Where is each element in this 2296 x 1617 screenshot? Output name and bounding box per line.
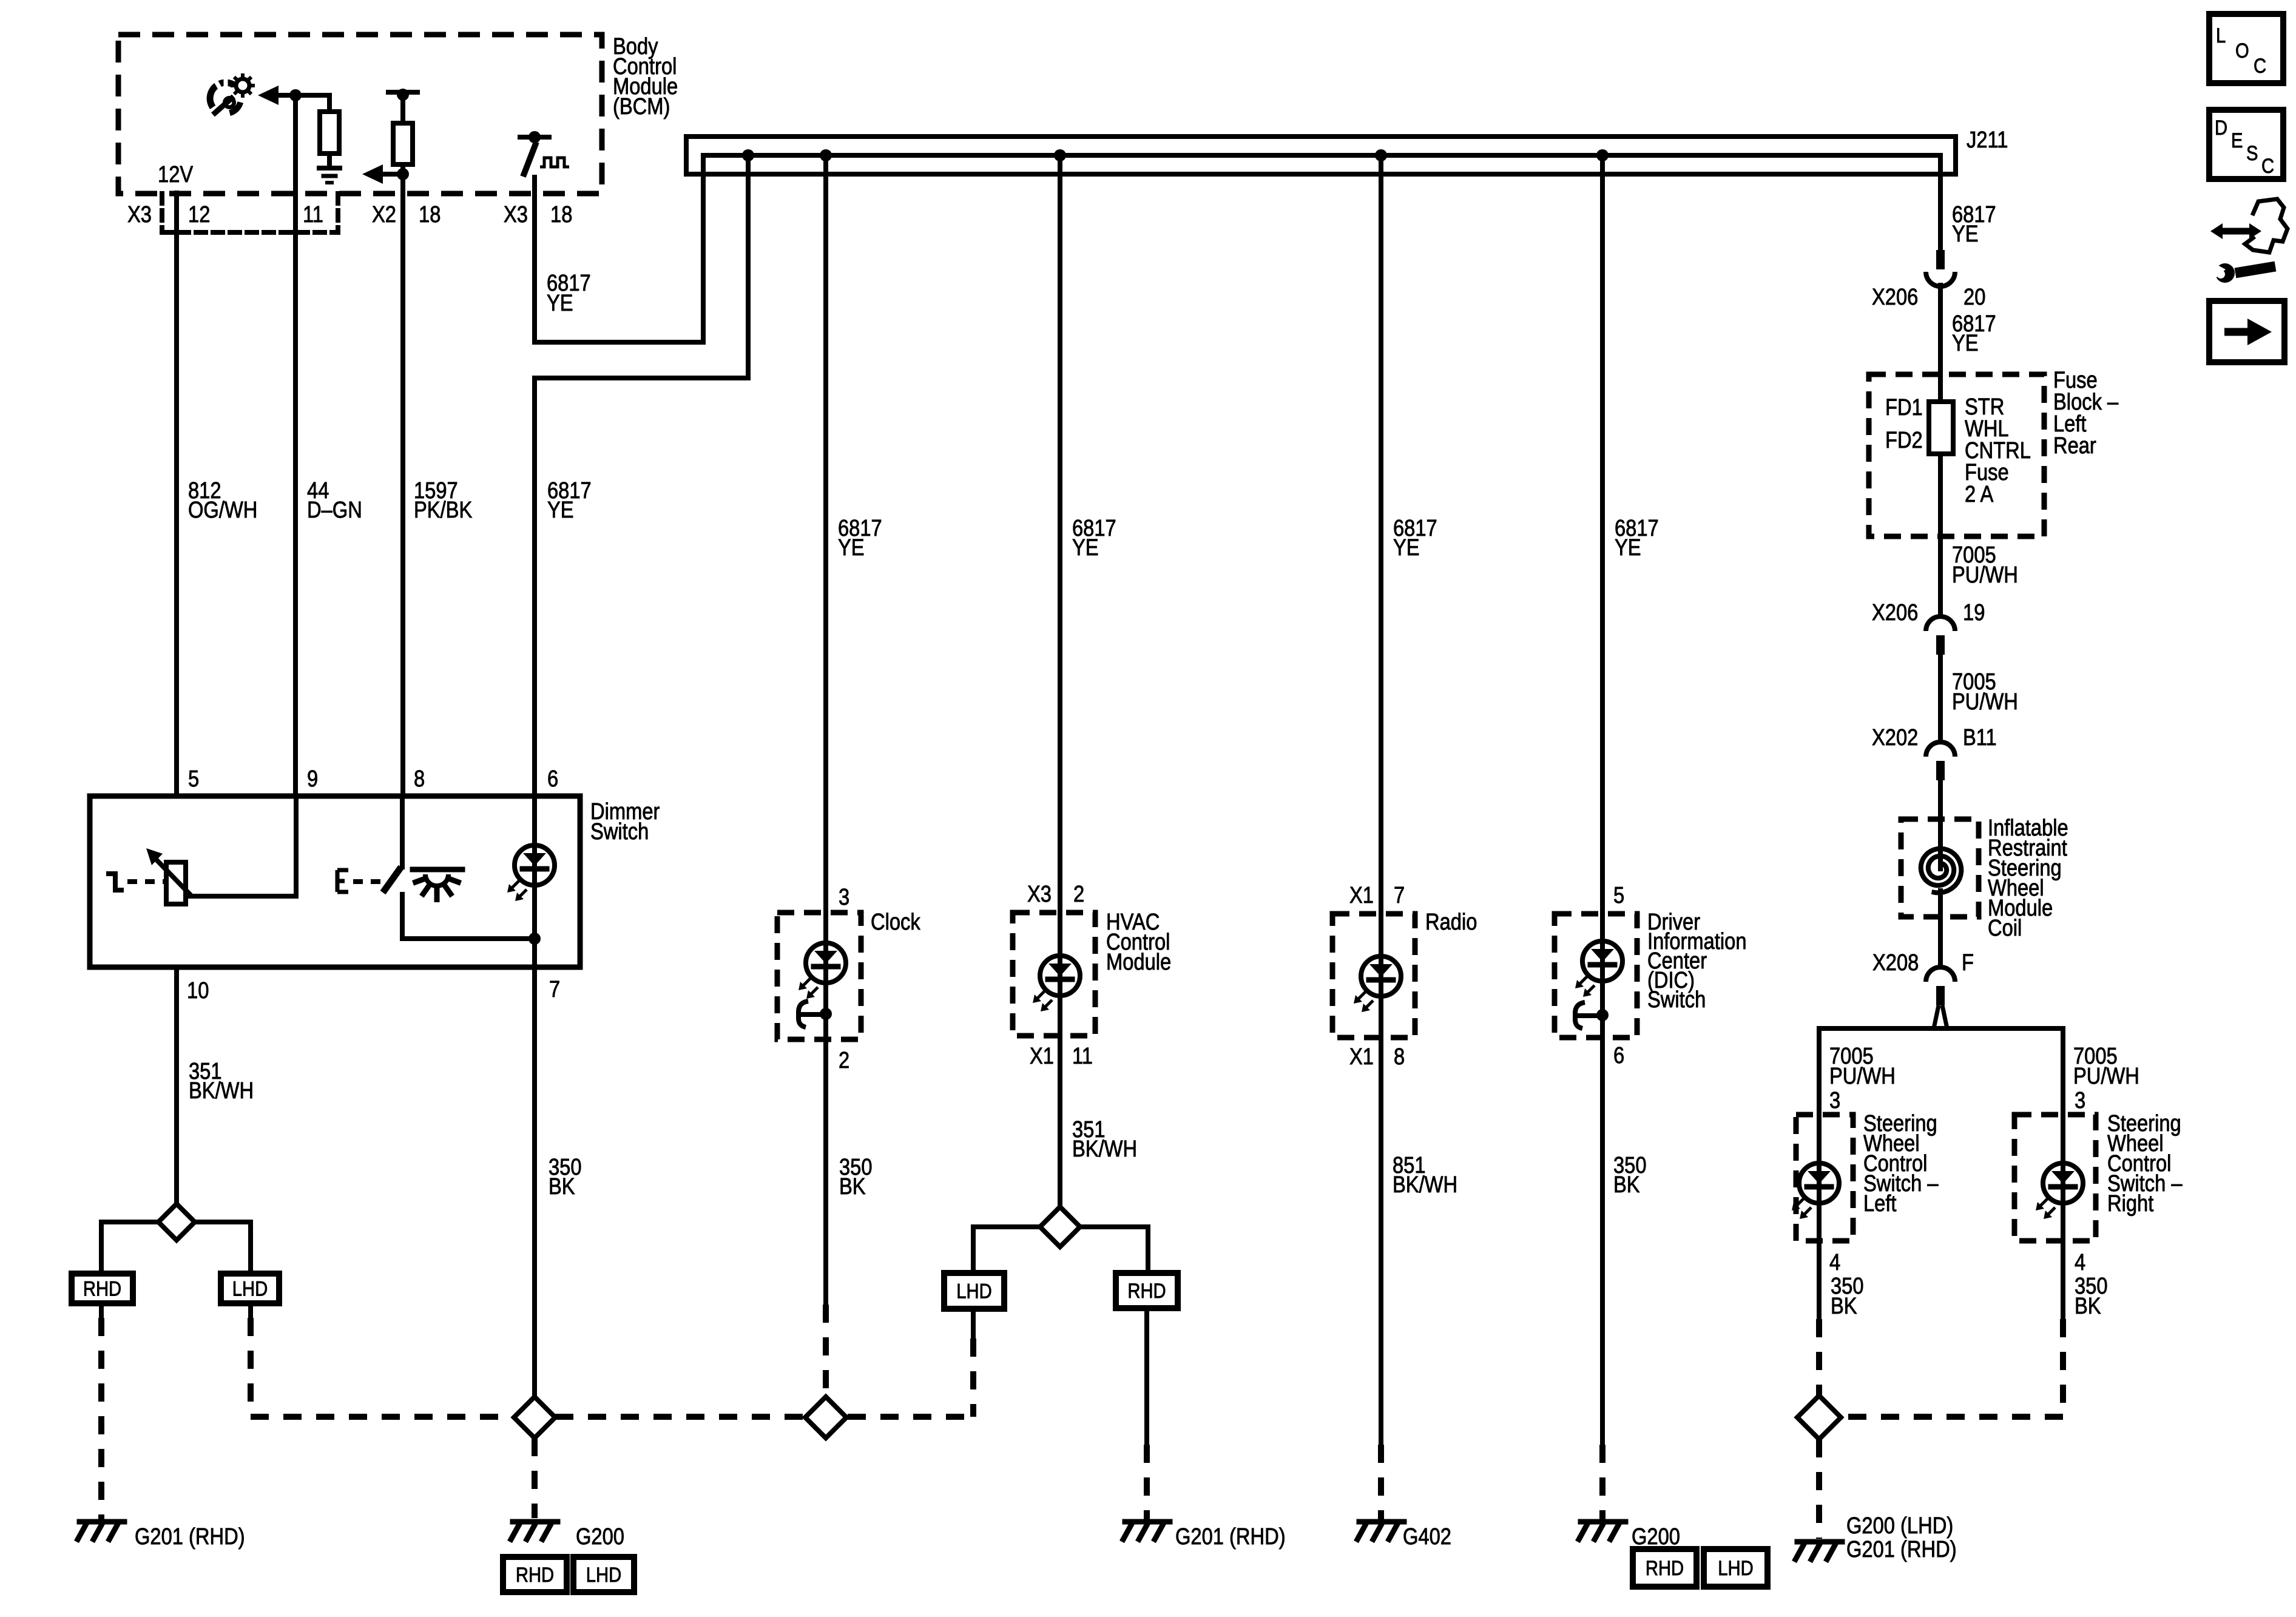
- svg-text:20: 20: [1963, 285, 1985, 310]
- svg-text:YE: YE: [1952, 331, 1979, 356]
- svg-text:7: 7: [1394, 883, 1405, 908]
- svg-text:7: 7: [549, 977, 560, 1002]
- svg-text:BK: BK: [2075, 1294, 2101, 1319]
- svg-text:E: E: [2231, 129, 2243, 152]
- svg-text:X3: X3: [127, 202, 152, 228]
- svg-text:12V: 12V: [158, 162, 194, 187]
- svg-text:LHD: LHD: [956, 1280, 992, 1303]
- svg-text:YE: YE: [1393, 535, 1420, 561]
- svg-text:X1: X1: [1349, 883, 1374, 908]
- svg-text:L: L: [2216, 24, 2226, 47]
- svg-text:10: 10: [187, 978, 209, 1004]
- svg-text:2: 2: [1073, 882, 1084, 907]
- svg-text:11: 11: [303, 202, 323, 228]
- svg-text:G402: G402: [1403, 1524, 1451, 1550]
- svg-text:C: C: [2254, 55, 2266, 78]
- svg-text:OG/WH: OG/WH: [188, 498, 257, 523]
- svg-text:6: 6: [1613, 1043, 1624, 1068]
- svg-text:BK: BK: [549, 1174, 575, 1200]
- svg-text:5: 5: [188, 766, 199, 792]
- svg-text:Rear: Rear: [2053, 433, 2096, 459]
- svg-text:18: 18: [419, 202, 441, 228]
- svg-text:D: D: [2215, 116, 2227, 140]
- svg-text:2 A: 2 A: [1965, 482, 1994, 507]
- svg-text:Right: Right: [2107, 1191, 2154, 1217]
- svg-text:X202: X202: [1872, 725, 1918, 751]
- svg-text:YE: YE: [1615, 535, 1641, 561]
- svg-text:F: F: [1962, 950, 1974, 976]
- svg-text:9: 9: [307, 766, 318, 792]
- svg-text:8: 8: [1394, 1044, 1405, 1070]
- svg-text:J211: J211: [1967, 127, 2008, 153]
- svg-text:G201 (RHD): G201 (RHD): [1175, 1524, 1286, 1550]
- svg-text:YE: YE: [1952, 221, 1979, 247]
- svg-text:X3: X3: [504, 202, 528, 228]
- svg-text:X2: X2: [372, 202, 396, 228]
- svg-text:2: 2: [839, 1048, 849, 1073]
- svg-text:8: 8: [414, 766, 425, 792]
- svg-text:FD2: FD2: [1885, 428, 1923, 453]
- svg-text:Module: Module: [1106, 950, 1171, 975]
- svg-text:6: 6: [547, 766, 558, 792]
- svg-text:X1: X1: [1030, 1044, 1054, 1069]
- svg-text:11: 11: [1072, 1044, 1093, 1069]
- svg-text:12: 12: [188, 202, 210, 228]
- svg-text:BK/WH: BK/WH: [1072, 1136, 1137, 1162]
- svg-text:X208: X208: [1872, 950, 1919, 976]
- svg-text:G200: G200: [576, 1524, 624, 1550]
- svg-text:FD1: FD1: [1885, 395, 1923, 420]
- svg-text:3: 3: [839, 885, 849, 910]
- svg-text:BK/WH: BK/WH: [1393, 1172, 1457, 1198]
- svg-text:PU/WH: PU/WH: [1952, 562, 2018, 588]
- svg-text:BK: BK: [1613, 1172, 1640, 1198]
- svg-text:18: 18: [550, 202, 572, 228]
- svg-text:Switch: Switch: [590, 819, 649, 845]
- svg-text:RHD: RHD: [83, 1278, 121, 1301]
- svg-text:Left: Left: [1863, 1191, 1897, 1217]
- svg-text:3: 3: [1829, 1088, 1840, 1113]
- svg-text:G200: G200: [1632, 1524, 1680, 1550]
- svg-text:S: S: [2246, 142, 2258, 165]
- svg-text:4: 4: [2075, 1250, 2085, 1275]
- svg-text:G201 (RHD): G201 (RHD): [1846, 1537, 1957, 1562]
- svg-text:G201 (RHD): G201 (RHD): [135, 1524, 245, 1550]
- svg-text:PU/WH: PU/WH: [1829, 1064, 1896, 1089]
- svg-text:(BCM): (BCM): [613, 94, 670, 120]
- svg-text:YE: YE: [838, 535, 865, 561]
- svg-text:3: 3: [2075, 1088, 2085, 1113]
- svg-text:RHD: RHD: [516, 1564, 554, 1587]
- svg-text:D–GN: D–GN: [307, 498, 362, 523]
- svg-text:RHD: RHD: [1127, 1280, 1166, 1303]
- svg-text:X206: X206: [1872, 285, 1918, 310]
- svg-text:YE: YE: [547, 498, 574, 523]
- svg-text:X206: X206: [1872, 600, 1918, 626]
- svg-text:YE: YE: [1072, 535, 1099, 561]
- svg-text:RHD: RHD: [1646, 1557, 1684, 1580]
- svg-text:BK/WH: BK/WH: [189, 1078, 254, 1104]
- svg-text:Clock: Clock: [871, 910, 921, 935]
- svg-text:PK/BK: PK/BK: [414, 498, 472, 523]
- svg-text:C: C: [2261, 155, 2274, 178]
- svg-text:BK: BK: [839, 1174, 866, 1200]
- svg-text:Coil: Coil: [1988, 916, 2022, 941]
- svg-text:Radio: Radio: [1425, 910, 1477, 935]
- svg-text:19: 19: [1963, 600, 1985, 626]
- svg-text:LHD: LHD: [232, 1278, 268, 1301]
- svg-text:X3: X3: [1027, 882, 1052, 907]
- svg-text:O: O: [2235, 39, 2249, 62]
- svg-text:YE: YE: [547, 291, 573, 316]
- svg-text:BK: BK: [1831, 1294, 1857, 1319]
- svg-text:PU/WH: PU/WH: [1952, 689, 2018, 715]
- svg-text:4: 4: [1829, 1250, 1840, 1275]
- svg-text:Switch: Switch: [1647, 987, 1706, 1013]
- svg-text:PU/WH: PU/WH: [2073, 1064, 2139, 1089]
- svg-text:X1: X1: [1349, 1044, 1374, 1070]
- svg-text:G200 (LHD): G200 (LHD): [1846, 1513, 1953, 1539]
- svg-text:LHD: LHD: [1718, 1557, 1754, 1580]
- svg-text:LHD: LHD: [586, 1564, 622, 1587]
- svg-text:5: 5: [1613, 883, 1624, 908]
- svg-text:B11: B11: [1963, 725, 1997, 751]
